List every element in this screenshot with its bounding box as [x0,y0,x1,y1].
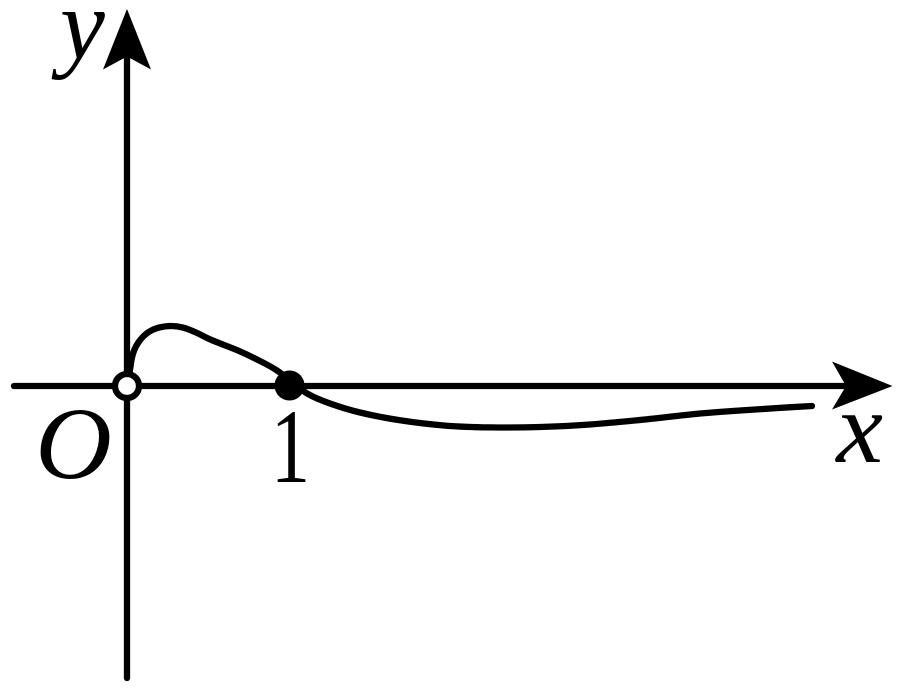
svg-text:y: y [51,0,105,80]
svg-text:x: x [834,372,883,484]
svg-text:1: 1 [271,389,310,506]
svg-text:O: O [35,386,112,500]
